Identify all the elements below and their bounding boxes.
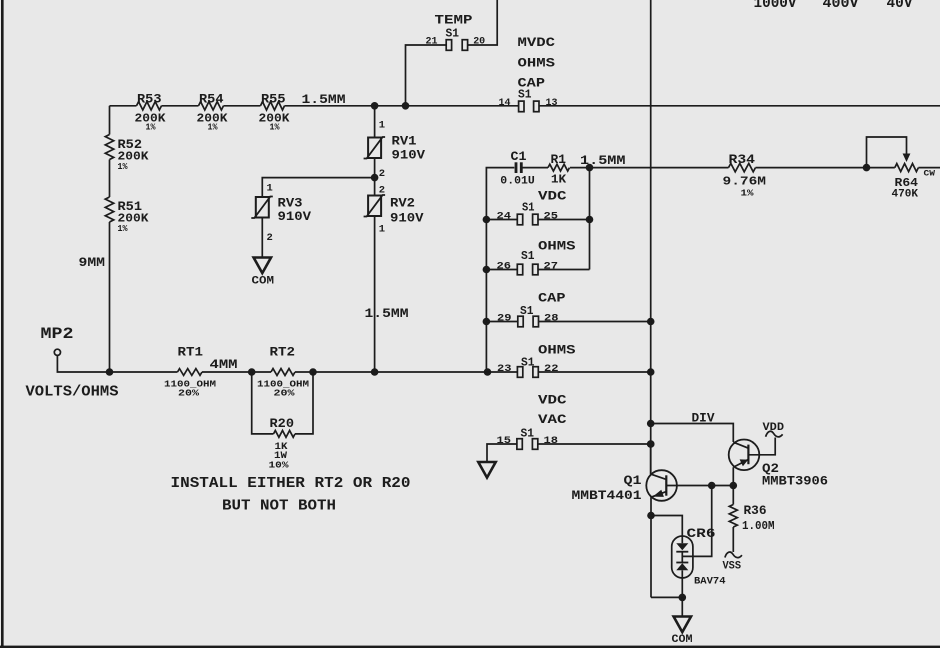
svg-text:2: 2 [379,168,385,180]
svg-text:1%: 1% [118,162,129,172]
svg-text:VDC: VDC [538,393,567,408]
resistor R34 [729,163,756,171]
svg-text:25: 25 [544,211,559,223]
transistor Q1 collector [651,474,666,479]
pot R64 arrow [903,154,911,163]
node junction col 23 [484,368,492,376]
varistor RV3 [256,197,269,218]
svg-text:1%: 1% [208,123,219,133]
wire left branch top [109,106,111,135]
wire left border [1,0,4,648]
svg-text:1: 1 [379,224,385,236]
wire R55 to cap switch [285,105,519,107]
wire vert R1-25-27 [589,168,591,270]
svg-text:14: 14 [499,97,511,109]
svg-text:R55: R55 [261,92,286,107]
switch S1 26/27 pins [517,264,522,275]
transistor Q2 base bar [747,445,749,465]
svg-text:13: 13 [546,97,558,109]
svg-text:20%: 20% [274,388,295,399]
node junction RT2 right [309,368,317,376]
transistor Q2 emitter [733,459,748,467]
svg-text:1%: 1% [146,123,157,133]
svg-text:40V: 40V [887,0,913,12]
varistor RV2 [368,196,381,217]
svg-text:910V: 910V [390,211,424,226]
capacitor C1 [515,162,518,173]
wire R54-R55 [224,105,261,107]
svg-text:22: 22 [544,363,559,375]
wire RT1-RT2 [202,371,271,373]
wire RV1 top lead [374,106,376,138]
diode CR6 outline [672,536,693,578]
svg-text:RT2: RT2 [270,345,296,360]
resistor R55 [261,102,285,110]
wire 25 right [538,219,590,221]
wire RV2 down [374,216,376,372]
svg-text:1.00M: 1.00M [742,519,775,533]
transistor Q1 circle [646,470,677,501]
wire bottom border [0,646,940,648]
wire 26 left [486,269,517,271]
wire DIV [651,424,734,443]
resistor R36 [729,505,737,528]
node junction RT1-RT2 [248,368,256,376]
wire R34 to R64 [756,167,895,169]
ground COM bottom [674,617,691,633]
wire 18 right [538,443,651,445]
svg-text:R36: R36 [744,503,767,518]
transistor Q1 base bar [665,475,667,495]
wire main line right of switch [539,105,940,107]
svg-text:TEMP: TEMP [435,13,473,28]
wire Q2 emitter down [732,467,734,485]
svg-text:S1: S1 [446,27,460,41]
svg-text:1%: 1% [118,224,129,234]
svg-text:R54: R54 [199,92,224,107]
svg-text:OHMS: OHMS [518,56,556,71]
wire Q1 emitter down [650,497,652,597]
svg-text:CAP: CAP [538,291,566,306]
terminal MP2 [54,349,60,355]
svg-text:VDD: VDD [763,422,785,434]
node junction R64 wiper [863,164,871,172]
wire R36 bottom [732,527,734,552]
resistor R53 [137,102,162,110]
svg-text:COM: COM [672,634,693,646]
wire switch column vertical [485,220,487,373]
svg-text:C1: C1 [511,149,527,164]
svg-text:1: 1 [379,120,385,132]
wire RV3 top [262,178,374,197]
wire main top line left [110,105,137,107]
svg-text:INSTALL EITHER RT2 OR R20: INSTALL EITHER RT2 OR R20 [171,475,411,492]
svg-text:20: 20 [473,35,485,47]
svg-text:24: 24 [497,211,512,223]
node junction vdc-vac [647,440,655,448]
node junction base-r36 [730,482,738,490]
node junction col 24 [483,216,491,224]
transistor Q1 arrow [653,490,664,497]
node junction col 26 [483,266,491,274]
svg-text:MVDC: MVDC [518,35,556,50]
svg-text:BAV74: BAV74 [694,576,726,588]
switch S1 24/25 pins [517,214,522,225]
svg-text:S1: S1 [521,249,535,263]
node junction com [679,594,687,602]
svg-text:R20: R20 [270,416,295,431]
svg-text:OHMS: OHMS [538,343,576,358]
svg-text:1.5MM: 1.5MM [302,92,346,107]
svg-text:RV1: RV1 [392,134,417,149]
power VDD squiggle [766,431,783,437]
svg-text:28: 28 [544,313,559,325]
wire 27 right [538,269,590,271]
svg-text:OHMS: OHMS [538,239,576,254]
wire cr6 mid [681,552,683,563]
wire RV3 to gnd [261,218,263,258]
wire R64 wiper [867,137,907,168]
svg-text:1%: 1% [741,188,754,199]
svg-text:VOLTS/OHMS: VOLTS/OHMS [26,384,119,401]
wire R36 top [732,486,734,505]
transistor Q2 collector [733,442,748,448]
node junction emitter [647,512,655,520]
wire RV1-RV2 [374,158,376,196]
wire R51 down to volts line [109,222,111,372]
wire 28 right [539,321,651,323]
svg-text:BUT NOT BOTH: BUT NOT BOTH [222,498,336,515]
wire R64 right [918,167,940,169]
svg-text:27: 27 [544,261,559,273]
resistor R1 [548,164,570,171]
svg-text:15: 15 [497,435,512,447]
node junction base-cr6 [708,482,716,490]
svg-text:MMBT4401: MMBT4401 [572,488,642,503]
transistor Q2 arrow [740,459,749,466]
node junction RV2 bottom [371,368,379,376]
svg-text:400V: 400V [823,0,859,12]
svg-text:2: 2 [267,232,273,244]
wire R20 right [295,372,313,434]
wire 22 right [538,371,650,373]
wire cr6 bottom lead [681,570,683,597]
svg-text:4MM: 4MM [210,357,238,372]
wire temp right vertical [468,0,498,45]
wire 29 left [486,321,517,323]
svg-text:RV2: RV2 [390,196,415,211]
switch S1 15/18 pins [517,439,522,450]
svg-text:26: 26 [497,261,512,273]
wire 24 left [486,219,517,221]
svg-text:COM: COM [252,276,275,288]
node junction 25 [586,216,594,224]
switch S1 14/13 pins [519,101,524,112]
wire R53-R54 [162,105,199,107]
transistor Q1 emitter [651,492,666,498]
svg-text:10%: 10% [269,460,289,471]
wire Q1 base lead [666,485,733,487]
svg-text:470K: 470K [892,189,919,201]
resistor R51 [105,197,113,222]
svg-text:1000V: 1000V [754,0,797,12]
node junction RV3 [371,174,379,182]
wire MP2 down [57,355,177,372]
switch S1 TEMP pins [446,40,451,51]
node junction left branch [106,368,114,376]
svg-text:S1: S1 [522,201,535,215]
wire C1-R1 [523,167,549,169]
node junction col 29 [483,318,491,326]
node junction RV1 branch [371,102,379,110]
svg-text:1%: 1% [270,123,281,133]
wire R1 to R34 [570,167,729,169]
wire big vertical [650,0,652,474]
wire C1 left [486,168,514,220]
wire temp left [406,45,447,106]
wire com down [681,597,683,616]
svg-text:910V: 910V [278,209,312,224]
node junction 22 main [647,368,655,376]
wire cr6 tap [682,486,711,557]
svg-text:18: 18 [544,435,559,447]
svg-text:9.76M: 9.76M [723,175,767,189]
node junction 28 main [647,318,655,326]
svg-text:R1: R1 [551,152,567,167]
diode CR6 top [676,543,688,550]
resistor RT1 [178,369,203,376]
ground COM rv3 [254,258,271,274]
node junction R1 right [586,164,594,172]
svg-text:23: 23 [497,363,512,375]
wire R52-R51 [109,160,111,198]
resistor R52 [105,135,113,160]
svg-text:CW: CW [924,169,937,179]
wire 15 left gnd [487,444,517,462]
transistor Q2 circle [729,440,760,471]
svg-text:S1: S1 [518,88,532,102]
svg-text:VSS: VSS [723,561,742,573]
svg-text:29: 29 [497,313,512,325]
diode CR6 bottom [676,562,688,564]
svg-text:1K: 1K [551,173,567,187]
resistor R54 [199,102,224,110]
svg-text:MMBT3906: MMBT3906 [762,474,828,489]
switch S1 29/28 pins [518,316,523,327]
svg-text:VAC: VAC [538,412,567,427]
svg-text:1.5MM: 1.5MM [365,306,409,321]
wire R20 left [252,372,274,434]
ground 15 [478,462,495,478]
svg-text:R34: R34 [729,152,756,167]
node junction DIV [647,420,655,428]
svg-text:1: 1 [267,183,273,195]
svg-text:VDC: VDC [538,189,567,204]
resistor R20 [274,431,296,438]
svg-text:R53: R53 [137,92,162,107]
svg-text:9MM: 9MM [79,255,106,270]
svg-text:RT1: RT1 [178,345,204,360]
wire emitter to com [651,596,682,598]
power VSS squiggle [725,552,742,558]
svg-text:20%: 20% [178,388,199,399]
wire Q2 base lead [748,438,775,455]
svg-text:910V: 910V [392,148,426,163]
wire Q1 collector up [650,444,652,474]
node junction 18 main [647,440,655,448]
resistor RT2 [271,369,295,376]
varistor RV1 [368,138,381,159]
switch S1 23/22 pins [517,367,522,378]
wire RT2 right [295,371,517,373]
wire cr6 top lead [651,516,682,544]
svg-text:Q1: Q1 [624,473,642,488]
resistor R64 pot [895,164,919,172]
svg-text:MP2: MP2 [41,325,74,343]
svg-text:0.01U: 0.01U [500,175,535,187]
node junction TEMP branch [402,102,410,110]
